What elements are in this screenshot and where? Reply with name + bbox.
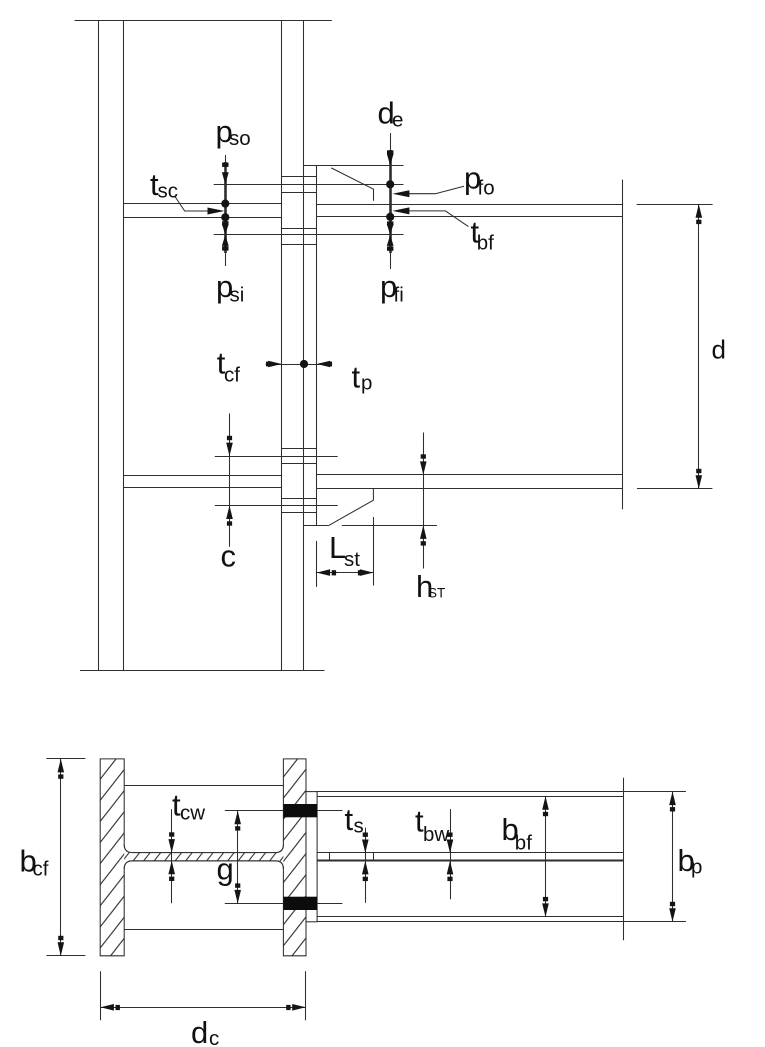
svg-text:bw: bw [423, 823, 449, 846]
svg-text:so: so [229, 127, 251, 150]
svg-text:g: g [217, 852, 234, 887]
d dimension [637, 204, 713, 206]
svg-text:d: d [712, 335, 726, 365]
p_fo leader [407, 186, 464, 193]
bolt row 2 line [214, 234, 404, 236]
stiffener end ticks on web [329, 853, 331, 861]
column web hatched strip with fillets [124, 845, 283, 869]
column bottom edge line [80, 670, 325, 672]
svg-text:t: t [352, 360, 361, 395]
bolt shank lines row 4 [282, 498, 317, 500]
end plate top edge with d_e extension line [304, 165, 404, 167]
t_cf / t_p dimension [266, 364, 333, 366]
svg-text:cf: cf [33, 858, 49, 881]
t_sc leader [175, 197, 211, 212]
bolt bottom (plan) [283, 897, 317, 910]
end plate (plan) [306, 792, 317, 922]
svg-text:c: c [221, 539, 237, 574]
svg-text:bf: bf [477, 232, 494, 255]
beam end break line (plan) [623, 778, 625, 941]
b_p dimension [672, 792, 674, 922]
column left flange outer face [98, 20, 100, 670]
svg-text:sc: sc [158, 180, 179, 203]
bolt top (plan) [283, 804, 317, 817]
t_s dimension [365, 828, 367, 903]
svg-text:p: p [691, 856, 702, 879]
g dimension [225, 810, 284, 812]
dimension chain d_e / p_fo / p_fi [390, 133, 392, 269]
L_st dimension [316, 541, 318, 587]
beam top flange [317, 204, 623, 206]
b_bf dimension [545, 796, 547, 917]
b_cf dimension [46, 758, 85, 760]
c dimension chain [229, 414, 231, 547]
end plate face [316, 166, 318, 526]
svg-text:t: t [345, 802, 354, 837]
bolt shank lines row 1 [282, 176, 317, 178]
svg-text:fo: fo [478, 177, 495, 200]
h_ST bottom extension line [342, 525, 437, 527]
svg-text:st: st [344, 548, 360, 571]
svg-text:p: p [361, 372, 372, 395]
d_c dimension [100, 971, 102, 1020]
column left flange inner face [123, 20, 125, 670]
svg-text:c: c [209, 1027, 219, 1047]
svg-text:fi: fi [394, 284, 404, 307]
bolt shank lines row 3 [282, 448, 317, 450]
continuity stiffener edges (plan) [124, 785, 283, 787]
rib stiffener under bottom flange [329, 489, 374, 526]
svg-text:ST: ST [428, 586, 445, 601]
bolt row 3 line [215, 456, 338, 458]
beam end break line [622, 180, 624, 510]
column I-section outline with hatch [100, 759, 306, 956]
h_ST dimension chain [423, 433, 425, 569]
bolt centerline extensions right of plate [317, 810, 342, 812]
dimension chain p_so / p_si [225, 155, 227, 266]
bolt row 1 line [214, 184, 404, 186]
column right flange outer face [303, 20, 305, 670]
svg-text:d: d [191, 1015, 208, 1047]
svg-text:cf: cf [224, 364, 240, 387]
beam web edges (plan) [317, 852, 624, 854]
t_bf leader [407, 211, 468, 227]
top continuity stiffener plate [124, 203, 282, 205]
bolt shank lines row 2 [282, 228, 317, 230]
svg-text:s: s [354, 815, 364, 838]
end-plate weld leader [331, 168, 373, 201]
column top edge line [75, 20, 332, 22]
svg-text:e: e [392, 109, 403, 132]
end plate bottom edge [304, 525, 329, 527]
beam flange edges (plan) [317, 796, 624, 798]
bolt row 4 line [215, 505, 338, 507]
column right flange inner face [281, 20, 283, 670]
svg-text:cw: cw [180, 802, 205, 825]
plate edge extension lines (b_p) [317, 791, 686, 793]
svg-text:bf: bf [515, 832, 532, 855]
t_bw dimension [450, 809, 452, 899]
beam bottom flange [317, 474, 623, 476]
bottom continuity stiffener plate [124, 475, 282, 477]
svg-text:si: si [230, 284, 245, 307]
t_cw dimension [171, 809, 173, 903]
